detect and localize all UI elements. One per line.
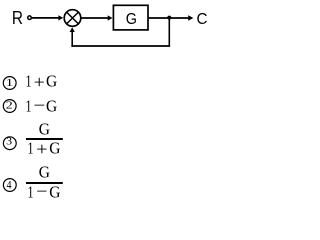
feedback wire horizontal bottom run (71, 45, 170, 47)
option 1 circled number (3, 77, 16, 90)
svg-text:1: 1 (26, 72, 32, 91)
svg-text:1: 1 (26, 97, 32, 116)
svg-text:G: G (49, 183, 60, 201)
svg-text:G: G (39, 120, 50, 139)
arrowhead into summing junction bottom (70, 27, 75, 32)
arrowhead into summing junction (58, 15, 63, 20)
svg-text:1: 1 (28, 183, 34, 201)
option 4 circled number (3, 179, 16, 192)
svg-text:4: 4 (7, 180, 12, 192)
option 2 circled number (3, 100, 16, 113)
summing junction circle (64, 10, 81, 27)
summing junction X diagonal 2 (67, 12, 79, 24)
svg-text:2: 2 (6, 100, 13, 111)
arrowhead into block G (108, 15, 113, 20)
svg-text:G: G (39, 163, 50, 182)
input terminal circle at R (28, 16, 32, 20)
svg-text:1: 1 (28, 139, 34, 158)
option 4 fraction bar (26, 182, 63, 184)
wire summing junction to block G (82, 17, 109, 19)
junction dot takeoff point (167, 16, 171, 20)
svg-text:G: G (49, 139, 60, 158)
wire block G to output arrowhead (149, 17, 189, 19)
wire R terminal to summing junction (32, 17, 59, 19)
feedback wire vertical drop from takeoff dot (168, 18, 170, 46)
svg-text:+: + (34, 72, 45, 92)
block G box (113, 5, 148, 30)
svg-text:G: G (46, 97, 57, 116)
summing junction X diagonal 1 (67, 12, 79, 24)
feedback wire vertical rise to summing junction (71, 31, 73, 47)
svg-text:G: G (126, 11, 137, 28)
arrowhead to C (188, 15, 193, 20)
svg-text:G: G (46, 72, 57, 91)
svg-text:−: − (33, 95, 45, 115)
svg-text:3: 3 (6, 137, 12, 148)
svg-text:−: − (36, 181, 47, 201)
option 3 fraction bar (26, 138, 63, 140)
option 3 circled number (3, 137, 16, 150)
svg-text:C: C (197, 11, 208, 28)
svg-text:1: 1 (6, 78, 14, 89)
svg-text:R: R (12, 8, 23, 28)
svg-text:+: + (36, 139, 48, 159)
